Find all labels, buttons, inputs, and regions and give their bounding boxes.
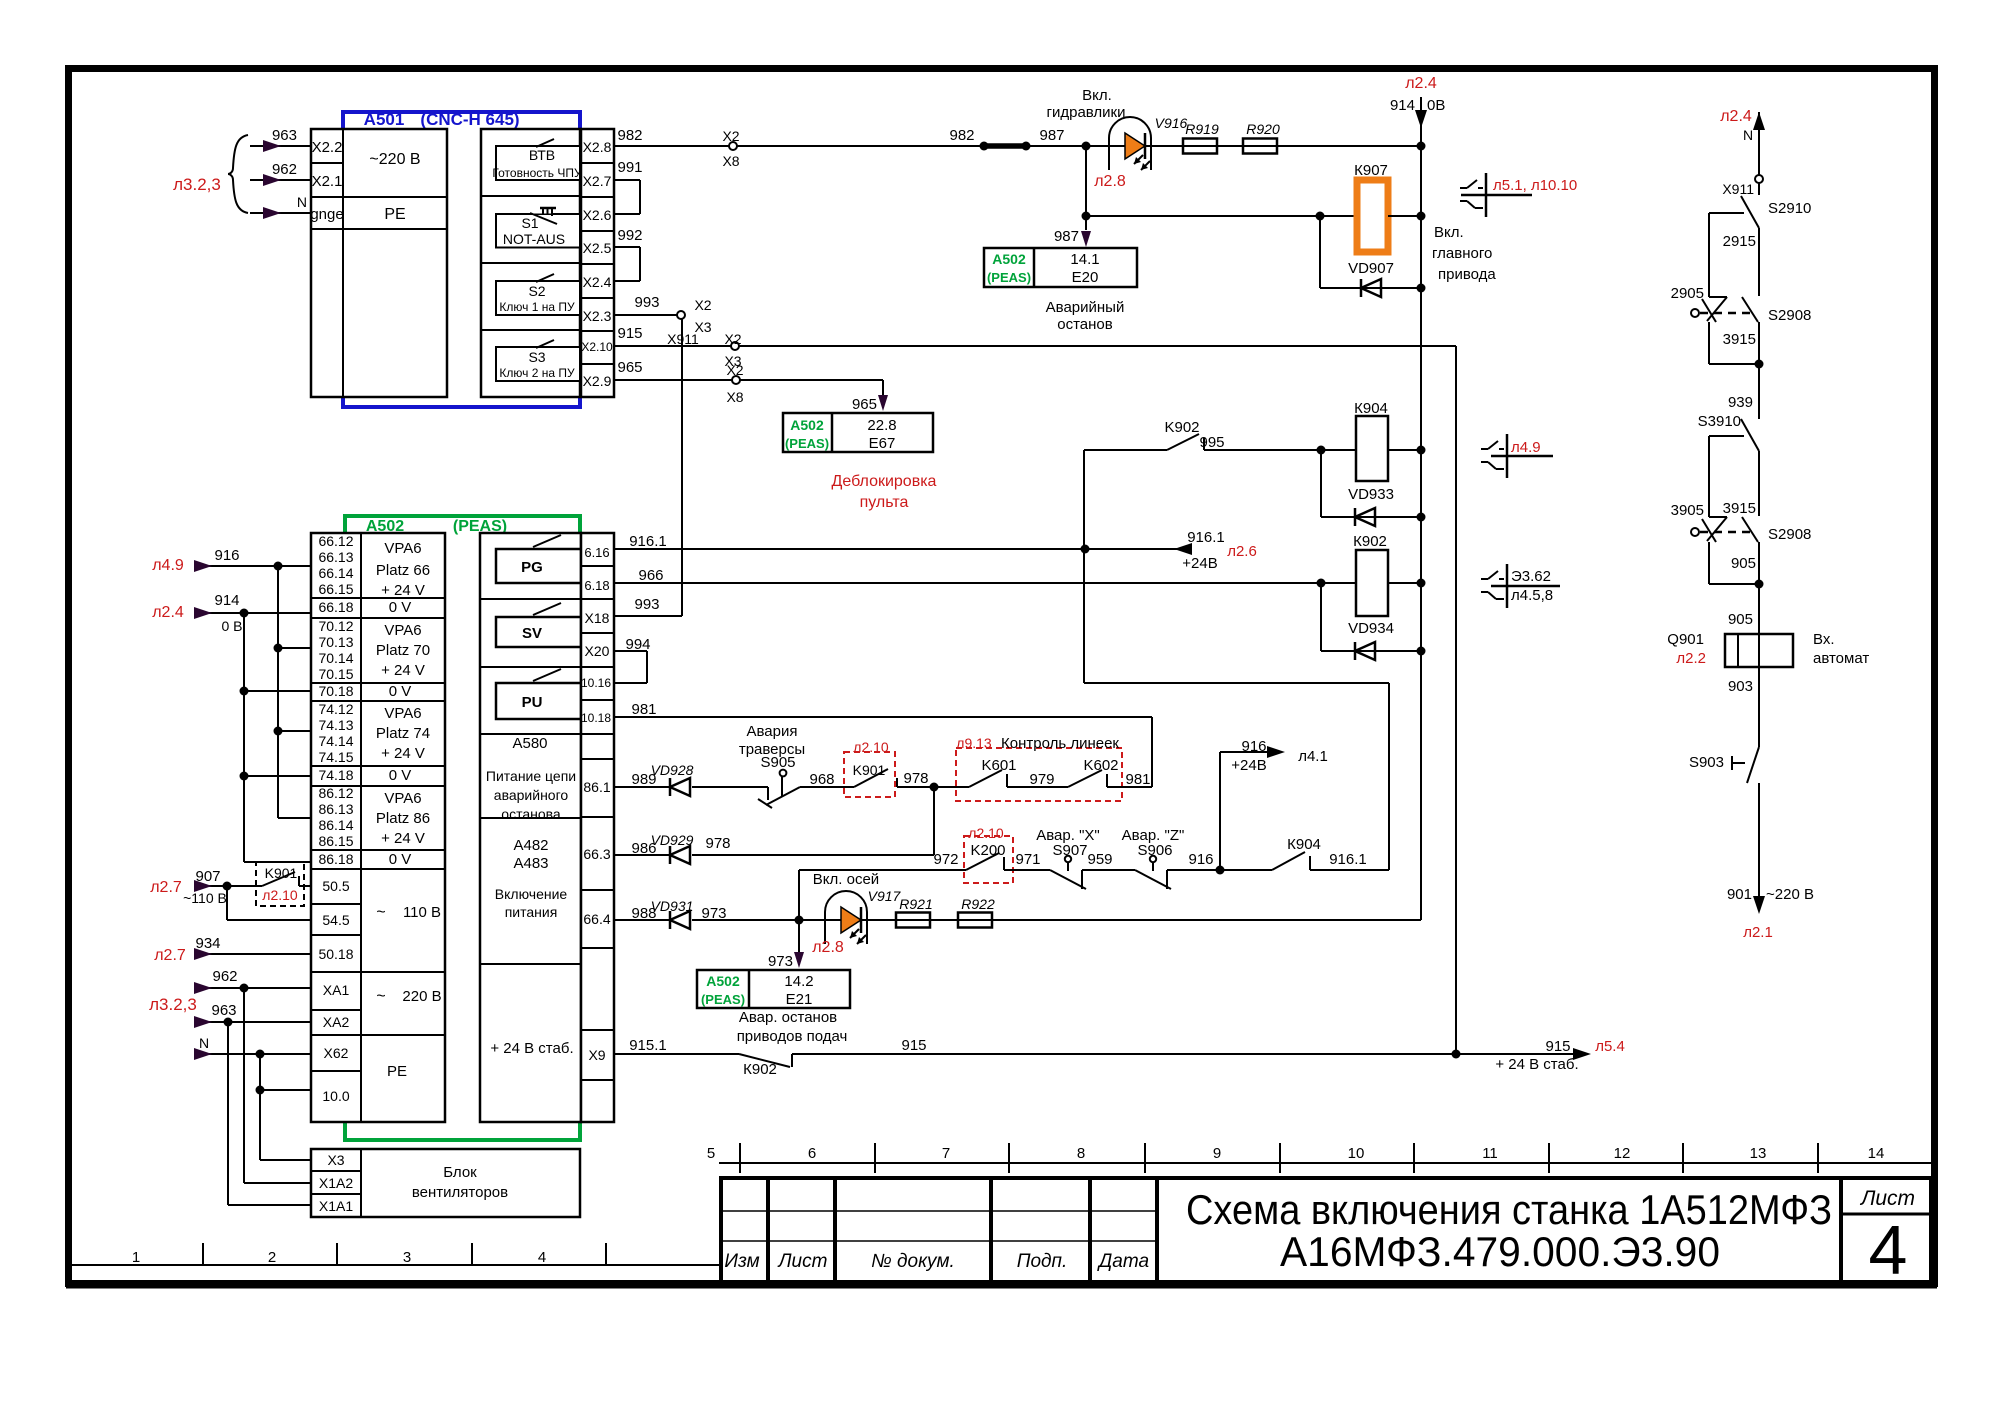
svg-text:7: 7 [942,1145,950,1162]
svg-text:+ 24 В стаб.: + 24 В стаб. [490,1040,573,1057]
svg-text:914: 914 [1390,97,1415,114]
svg-text:981: 981 [631,701,656,718]
svg-text:л4.1: л4.1 [1298,748,1328,765]
svg-text:A502: A502 [706,973,740,989]
svg-text:982: 982 [617,127,642,144]
svg-text:аварийного: аварийного [494,787,569,803]
svg-text:Авар. останов: Авар. останов [739,1009,837,1026]
svg-text:66.15: 66.15 [318,581,353,597]
svg-text:Дата: Дата [1097,1251,1149,1272]
svg-text:0 V: 0 V [389,851,412,868]
svg-text:70.13: 70.13 [318,634,353,650]
svg-text:Вкл.: Вкл. [1434,224,1464,241]
svg-text:5: 5 [707,1145,715,1162]
svg-text:916: 916 [214,547,239,564]
svg-text:Готовность ЧПУ: Готовность ЧПУ [492,166,582,180]
svg-text:905: 905 [1728,611,1753,628]
svg-text:0 V: 0 V [389,767,412,784]
svg-text:Platz 86: Platz 86 [376,810,430,827]
svg-text:Лист: Лист [1859,1187,1915,1210]
svg-text:3905: 3905 [1671,502,1704,519]
svg-text:R920: R920 [1246,121,1280,137]
svg-text:916: 916 [1188,851,1213,868]
svg-text:VD929: VD929 [651,832,694,848]
svg-text:л2.8: л2.8 [1094,173,1126,190]
svg-text:X8: X8 [722,153,739,169]
svg-text:86.14: 86.14 [318,817,353,833]
svg-text:K901: K901 [265,865,298,881]
svg-text:останова: останова [501,806,561,822]
svg-text:л2.2: л2.2 [1676,650,1706,667]
svg-text:л2.4: л2.4 [1405,75,1437,92]
svg-text:E67: E67 [869,435,896,452]
svg-text:л3.2,3: л3.2,3 [149,995,197,1014]
svg-text:13: 13 [1750,1145,1767,1162]
svg-text:А16МФЗ.479.000.Э3.90: А16МФЗ.479.000.Э3.90 [1280,1228,1720,1275]
svg-text:~220 В: ~220 В [1766,886,1814,903]
svg-text:965: 965 [852,396,877,413]
svg-text:3: 3 [403,1249,411,1266]
svg-text:(PEAS): (PEAS) [701,992,745,1007]
svg-text:л2.7: л2.7 [150,879,182,896]
svg-text:74.18: 74.18 [318,767,353,783]
svg-text:12: 12 [1614,1145,1631,1162]
svg-text:66.12: 66.12 [318,533,353,549]
svg-text:972: 972 [933,851,958,868]
svg-text:S3910: S3910 [1698,413,1741,430]
svg-text:9: 9 [1213,1145,1221,1162]
svg-text:74.14: 74.14 [318,733,353,749]
svg-text:л2.4: л2.4 [1720,108,1752,125]
svg-text:gnge: gnge [310,206,343,223]
svg-text:останов: останов [1057,316,1113,333]
svg-text:питания: питания [505,904,558,920]
svg-text:К904: К904 [1354,400,1388,417]
svg-text:V916: V916 [1155,115,1188,131]
svg-text:K901: K901 [853,762,886,778]
svg-text:л2.4: л2.4 [152,604,184,621]
svg-text:979: 979 [1029,771,1054,788]
svg-text:л2.10: л2.10 [262,887,298,903]
svg-text:приводов подач: приводов подач [737,1028,848,1045]
svg-text:X2.3: X2.3 [583,308,612,324]
svg-text:PE: PE [384,206,405,223]
svg-text:66.14: 66.14 [318,565,353,581]
svg-text:993: 993 [634,294,659,311]
svg-text:привода: привода [1438,266,1496,283]
svg-text:Вкл.: Вкл. [1082,87,1112,104]
svg-text:110 В: 110 В [403,904,441,921]
svg-text:74.12: 74.12 [318,701,353,717]
svg-text:6: 6 [808,1145,816,1162]
svg-text:Авария: Авария [747,723,798,740]
svg-text:X20: X20 [585,643,610,659]
svg-text:R921: R921 [899,896,932,912]
svg-text:VD928: VD928 [651,762,694,778]
svg-text:86.18: 86.18 [318,851,353,867]
svg-text:66.13: 66.13 [318,549,353,565]
svg-text:S2: S2 [528,283,545,299]
svg-text:+24В: +24В [1182,555,1217,572]
svg-text:Q901: Q901 [1667,631,1704,648]
svg-text:л2.7: л2.7 [154,947,186,964]
svg-text:Platz 74: Platz 74 [376,725,430,742]
svg-text:915.1: 915.1 [629,1037,667,1054]
svg-text:S2908: S2908 [1768,307,1811,324]
svg-text:~110 В: ~110 В [183,890,227,906]
svg-text:978: 978 [705,835,730,852]
svg-text:2: 2 [268,1249,276,1266]
svg-text:50.18: 50.18 [318,946,353,962]
svg-text:л2.10: л2.10 [968,825,1004,841]
svg-text:S3: S3 [528,349,545,365]
svg-text:10.18: 10.18 [581,711,611,725]
svg-text:993: 993 [634,596,659,613]
svg-text:962: 962 [212,968,237,985]
svg-text:автомат: автомат [1813,650,1869,667]
svg-text:Вкл. осей: Вкл. осей [813,871,879,888]
svg-text:0 V: 0 V [389,599,412,616]
svg-text:6.18: 6.18 [584,578,609,593]
svg-text:А580: А580 [512,735,547,752]
svg-text:14: 14 [1868,1145,1885,1162]
svg-text:л2.1: л2.1 [1743,924,1773,941]
svg-text:3915: 3915 [1723,500,1756,517]
svg-text:901: 901 [1727,886,1752,903]
svg-text:982: 982 [949,127,974,144]
svg-text:981: 981 [1125,771,1150,788]
svg-text:PE: PE [387,1063,407,1080]
svg-text:Лист: Лист [777,1251,828,1272]
svg-text:10.16: 10.16 [581,676,611,690]
svg-text:86.13: 86.13 [318,801,353,817]
svg-text:N: N [1743,127,1753,143]
svg-text:X911: X911 [1722,181,1754,197]
svg-text:0В: 0В [1427,97,1445,114]
svg-text:939: 939 [1728,394,1753,411]
svg-text:~: ~ [376,904,385,921]
svg-text:916.1: 916.1 [1329,851,1367,868]
svg-text:л9.13: л9.13 [956,735,992,751]
svg-text:NOT-AUS: NOT-AUS [503,231,565,247]
svg-text:VPA6: VPA6 [384,790,421,807]
svg-text:1: 1 [132,1249,140,1266]
svg-text:X2.6: X2.6 [583,207,612,223]
svg-text:VPA6: VPA6 [384,705,421,722]
svg-text:R919: R919 [1185,121,1219,137]
svg-text:X2.5: X2.5 [583,240,612,256]
svg-text:гидравлики: гидравлики [1047,104,1126,121]
svg-text:Подп.: Подп. [1017,1251,1068,1272]
svg-text:915: 915 [1545,1038,1570,1055]
svg-text:74.15: 74.15 [318,749,353,765]
svg-text:914: 914 [214,592,239,609]
svg-text:74.13: 74.13 [318,717,353,733]
svg-text:916.1: 916.1 [1187,529,1225,546]
svg-text:987: 987 [1039,127,1064,144]
svg-text:4: 4 [1869,1211,1908,1289]
svg-text:X1A2: X1A2 [319,1175,353,1191]
svg-text:915: 915 [617,325,642,342]
svg-text:11: 11 [1482,1145,1498,1162]
svg-text:+ 24 В стаб.: + 24 В стаб. [1495,1056,1578,1073]
svg-text:220 В: 220 В [402,988,441,1005]
svg-text:А483: А483 [513,855,548,872]
svg-text:915: 915 [901,1037,926,1054]
svg-text:№ докум.: № докум. [871,1251,955,1272]
svg-text:968: 968 [809,771,834,788]
svg-text:X2.1: X2.1 [312,173,343,190]
svg-text:0 V: 0 V [389,683,412,700]
svg-text:Ключ 2 на ПУ: Ключ 2 на ПУ [499,366,575,380]
svg-text:916: 916 [1241,738,1266,755]
svg-text:907: 907 [195,868,220,885]
svg-text:Блок: Блок [443,1164,477,1181]
svg-text:+24В: +24В [1231,757,1266,774]
svg-text:X62: X62 [324,1045,349,1061]
svg-text:86.1: 86.1 [583,779,610,795]
svg-text:Э3.62: Э3.62 [1511,568,1551,585]
svg-text:К902: К902 [1353,533,1387,550]
svg-text:E21: E21 [786,991,813,1008]
svg-text:К902: К902 [743,1061,777,1078]
svg-text:A502: A502 [992,251,1026,267]
svg-text:959: 959 [1087,851,1112,868]
svg-text:PU: PU [522,694,543,711]
svg-text:(CNC-H 645): (CNC-H 645) [420,110,519,129]
svg-text:V917: V917 [868,888,902,904]
svg-text:0 В: 0 В [221,618,242,634]
svg-text:987: 987 [1054,228,1079,245]
svg-text:л2.8: л2.8 [812,939,844,956]
svg-text:SV: SV [522,625,542,642]
svg-text:X2: X2 [724,331,741,347]
svg-text:X2.10: X2.10 [581,340,613,354]
svg-text:ВТВ: ВТВ [529,147,555,163]
svg-text:2905: 2905 [1671,285,1704,302]
svg-text:973: 973 [768,953,793,970]
svg-text:X18: X18 [585,610,610,626]
svg-text:K200: K200 [970,842,1005,859]
svg-text:VD934: VD934 [1348,620,1394,637]
svg-text:10: 10 [1348,1145,1365,1162]
svg-text:966: 966 [638,567,663,584]
svg-text:S905: S905 [760,754,795,771]
svg-text:Схема включения станка 1А512МФ: Схема включения станка 1А512МФЗ [1186,1186,1832,1233]
svg-text:66.3: 66.3 [583,846,610,862]
svg-text:+ 24 V: + 24 V [381,745,425,762]
svg-text:(PEAS): (PEAS) [785,436,829,451]
svg-text:XA1: XA1 [323,982,350,998]
svg-text:Platz 66: Platz 66 [376,562,430,579]
svg-text:934: 934 [195,935,220,952]
svg-text:10.0: 10.0 [322,1088,349,1104]
svg-text:X8: X8 [726,389,743,405]
svg-text:Включение: Включение [495,886,568,902]
svg-text:л4.9: л4.9 [1511,439,1541,456]
svg-text:К904: К904 [1287,836,1321,853]
svg-text:л4.9: л4.9 [152,557,184,574]
svg-text:К907: К907 [1354,162,1388,179]
svg-text:R922: R922 [961,896,995,912]
svg-text:963: 963 [272,127,297,144]
svg-text:6.16: 6.16 [584,545,609,560]
svg-text:+ 24 V: + 24 V [381,582,425,599]
svg-text:X2.4: X2.4 [583,274,612,290]
svg-text:70.12: 70.12 [318,618,353,634]
svg-text:Вх.: Вх. [1813,631,1835,648]
svg-text:л4.5,8: л4.5,8 [1511,587,1553,604]
svg-text:A502: A502 [790,417,824,433]
svg-text:главного: главного [1432,245,1492,262]
svg-text:70.18: 70.18 [318,683,353,699]
svg-text:A501: A501 [364,110,405,129]
svg-text:70.14: 70.14 [318,650,353,666]
svg-text:X2.2: X2.2 [312,139,343,156]
svg-text:А482: А482 [513,837,548,854]
svg-text:X2.7: X2.7 [583,173,612,189]
svg-text:(PEAS): (PEAS) [987,270,1031,285]
svg-text:S2910: S2910 [1768,200,1811,217]
svg-text:66.18: 66.18 [318,599,353,615]
svg-text:50.5: 50.5 [322,878,349,894]
svg-text:Деблокировка: Деблокировка [832,473,937,490]
svg-text:3915: 3915 [1723,331,1756,348]
svg-text:14.1: 14.1 [1070,251,1099,268]
svg-text:903: 903 [1728,678,1753,695]
svg-text:л5.1, л10.10: л5.1, л10.10 [1493,177,1577,194]
svg-text:4: 4 [538,1249,546,1266]
svg-text:+ 24 V: + 24 V [381,830,425,847]
svg-text:Питание цепи: Питание цепи [486,768,576,784]
svg-text:905: 905 [1731,555,1756,572]
svg-text:N: N [199,1035,209,1051]
svg-text:992: 992 [617,227,642,244]
svg-text:PG: PG [521,559,543,576]
svg-text:л5.4: л5.4 [1595,1038,1625,1055]
svg-text:2915: 2915 [1723,233,1756,250]
svg-text:Ключ 1 на ПУ: Ключ 1 на ПУ [499,300,575,314]
svg-text:54.5: 54.5 [322,912,349,928]
svg-text:VPA6: VPA6 [384,540,421,557]
svg-text:~220 В: ~220 В [369,151,420,168]
svg-text:991: 991 [617,159,642,176]
svg-text:Аварийный: Аварийный [1046,299,1125,316]
svg-text:+ 24 V: + 24 V [381,662,425,679]
svg-text:S1: S1 [521,215,538,231]
svg-text:86.12: 86.12 [318,785,353,801]
svg-text:VD933: VD933 [1348,486,1394,503]
svg-text:X2: X2 [694,297,711,313]
svg-text:994: 994 [625,636,650,653]
svg-text:л2.10: л2.10 [853,739,889,755]
svg-text:K902: K902 [1164,419,1199,436]
svg-text:X911: X911 [667,331,699,347]
svg-text:Контроль линеек: Контроль линеек [1001,735,1119,752]
svg-text:X3: X3 [327,1152,344,1168]
svg-text:N: N [297,194,307,210]
svg-text:965: 965 [617,359,642,376]
svg-text:X2.9: X2.9 [583,373,612,389]
svg-text:22.8: 22.8 [867,417,896,434]
svg-text:л3.2,3: л3.2,3 [173,175,221,194]
svg-text:70.15: 70.15 [318,666,353,682]
svg-text:X2.8: X2.8 [583,139,612,155]
svg-text:963: 963 [211,1002,236,1019]
svg-text:пульта: пульта [860,494,909,511]
svg-text:XA2: XA2 [323,1014,350,1030]
svg-text:X1A1: X1A1 [319,1198,353,1214]
svg-text:962: 962 [272,161,297,178]
svg-text:X2: X2 [722,128,739,144]
svg-text:978: 978 [903,770,928,787]
svg-text:973: 973 [701,905,726,922]
svg-text:Изм: Изм [724,1251,759,1272]
svg-text:S2908: S2908 [1768,526,1811,543]
svg-text:916.1: 916.1 [629,533,667,550]
svg-text:VPA6: VPA6 [384,622,421,639]
svg-text:Platz 70: Platz 70 [376,642,430,659]
svg-text:X9: X9 [588,1047,605,1063]
svg-text:14.2: 14.2 [784,973,813,990]
svg-text:S903: S903 [1689,754,1724,771]
svg-text:л2.6: л2.6 [1227,543,1257,560]
svg-text:X2: X2 [726,362,743,378]
svg-text:86.15: 86.15 [318,833,353,849]
svg-text:8: 8 [1077,1145,1085,1162]
svg-text:E20: E20 [1072,269,1099,286]
svg-text:вентиляторов: вентиляторов [412,1184,508,1201]
svg-text:971: 971 [1015,851,1040,868]
svg-text:VD907: VD907 [1348,260,1394,277]
svg-text:~: ~ [376,988,385,1005]
svg-text:66.4: 66.4 [583,911,610,927]
